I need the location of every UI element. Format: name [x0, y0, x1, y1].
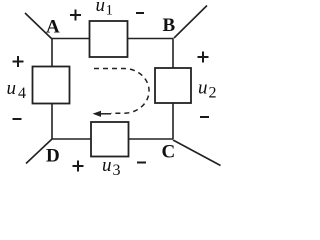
- svg-text:C: C: [162, 142, 176, 163]
- svg-text:B: B: [163, 15, 176, 36]
- element box u3: [91, 122, 129, 157]
- wire top A-B: [52, 38, 174, 40]
- element box u4: [33, 67, 70, 104]
- plus sign bottom (u3 left): [73, 161, 84, 172]
- plus sign right (u2 top): [198, 52, 209, 63]
- loop arrow head: [93, 111, 102, 117]
- plus sign top (u1 left): [70, 10, 81, 21]
- svg-text:A: A: [46, 17, 60, 38]
- loop arrow shaft: [97, 113, 111, 115]
- minus sign right (u2 bottom): [200, 116, 209, 118]
- wire: lead into node C (bottom-right diagonal): [173, 140, 221, 166]
- wire left A-D: [51, 39, 53, 140]
- minus sign left (u4 bottom): [13, 118, 22, 120]
- element box u1: [90, 21, 128, 57]
- wire: lead into node D (bottom-left diagonal): [26, 139, 52, 164]
- svg-text:u3: u3: [102, 155, 121, 179]
- wire: lead into node B (top-right diagonal): [174, 6, 207, 39]
- svg-text:u2: u2: [198, 78, 217, 102]
- minus sign bottom (u3 right): [137, 162, 146, 164]
- svg-text:D: D: [46, 146, 60, 167]
- dashed loop arrow (clockwise): [94, 69, 149, 114]
- element box u2: [155, 68, 191, 103]
- svg-text:u4: u4: [7, 78, 27, 102]
- wire right B-C: [172, 39, 174, 140]
- svg-text:u1: u1: [96, 0, 114, 19]
- wire bottom D-C: [52, 138, 173, 140]
- plus sign left (u4 top): [13, 56, 24, 67]
- minus sign top (u1 right): [136, 12, 144, 14]
- wire: lead into node A (top-left diagonal): [25, 13, 52, 39]
